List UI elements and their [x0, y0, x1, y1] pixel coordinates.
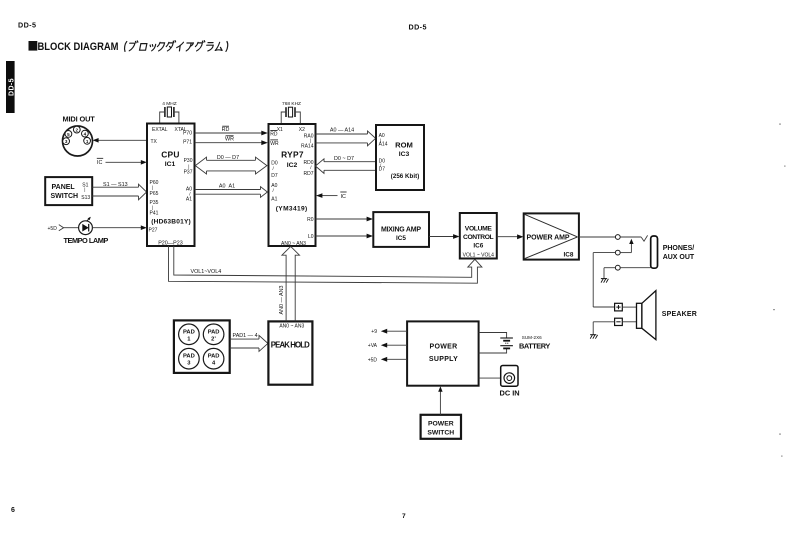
svg-text:P71: P71: [183, 140, 192, 146]
svg-text:SWITCH: SWITCH: [51, 193, 79, 200]
jack contact 1: [615, 235, 647, 242]
pin 4: [82, 130, 89, 137]
wire POWER SWITCH to POWER SUPPLY: [438, 386, 442, 415]
MIDI OUT connector J1: [63, 115, 96, 157]
svg-text:X2: X2: [299, 127, 305, 133]
jack contact 3 (sleeve): [604, 265, 651, 278]
ground (speaker -): [590, 335, 598, 339]
svg-text:IC3: IC3: [399, 151, 410, 158]
svg-text:P41: P41: [150, 211, 159, 217]
scan specks (decorative): [773, 124, 786, 457]
svg-text:RYP7: RYP7: [281, 149, 304, 159]
svg-text:A0 A1: A0 A1: [219, 183, 235, 189]
svg-text:EXTAL: EXTAL: [152, 127, 168, 133]
wire POWER AMP to jack tip: [579, 236, 616, 238]
pad PAD2: [203, 324, 224, 345]
wire TX to MIDI pin1: [93, 138, 147, 143]
svg-text:TEMPO LAMP: TEMPO LAMP: [64, 236, 109, 245]
svg-text:2: 2: [76, 128, 79, 133]
block PEAK HOLD: [268, 321, 312, 384]
svg-text:AN0 — AN3: AN0 — AN3: [279, 285, 285, 314]
svg-text:A1: A1: [271, 197, 277, 203]
net +9: [371, 329, 407, 335]
terminal -: [593, 318, 636, 335]
LED tempo lamp D1: [64, 217, 93, 235]
svg-text:|: |: [152, 185, 153, 190]
pin 2: [73, 126, 80, 133]
svg-text:CONTROL: CONTROL: [463, 234, 494, 241]
bus PAD1-4 to PEAK HOLD: [230, 333, 268, 352]
battery BT1 SUM-2X6: [479, 333, 551, 354]
wire RD CPU to RYP7: [195, 126, 268, 135]
svg-text:+5D: +5D: [48, 226, 58, 232]
svg-text:D0 ~ D7: D0 ~ D7: [334, 156, 354, 162]
svg-text:+9: +9: [371, 329, 377, 335]
svg-text:5: 5: [67, 132, 70, 137]
block PANEL SWITCH: [45, 177, 92, 205]
svg-text:AUX OUT: AUX OUT: [663, 254, 695, 261]
svg-text:R0: R0: [307, 217, 314, 223]
svg-text:P27: P27: [149, 227, 158, 233]
terminal +: [615, 303, 637, 311]
bus S1-S13 PANEL SWITCH to CPU: [92, 182, 146, 200]
svg-text:BATTERY: BATTERY: [519, 342, 551, 351]
pad unit (PAD1-PAD4): [174, 320, 230, 373]
svg-text:RA14: RA14: [301, 144, 314, 150]
svg-text:AN0 ~ AN3: AN0 ~ AN3: [281, 241, 306, 247]
crystal X2 768KHZ: [281, 101, 301, 124]
svg-text:POWER: POWER: [428, 420, 454, 427]
node IC (CPU reset stub): [97, 158, 147, 166]
svg-text:A0 — A14: A0 — A14: [330, 128, 354, 134]
svg-text:A1: A1: [186, 197, 192, 203]
svg-text:RD: RD: [222, 127, 230, 133]
svg-text:SWITCH: SWITCH: [427, 429, 454, 436]
speaker SP1: [637, 291, 698, 340]
svg-text:P65: P65: [150, 191, 159, 197]
wire WR CPU to RYP7: [195, 136, 268, 145]
wire MIXING AMP to VOLUME CONTROL: [429, 234, 460, 239]
svg-text:VOLUME: VOLUME: [465, 226, 493, 233]
svg-text:VOL1~VOL4: VOL1~VOL4: [191, 269, 222, 275]
svg-text:RD: RD: [270, 131, 278, 137]
svg-text:|: |: [84, 187, 85, 192]
svg-text:D7: D7: [271, 173, 278, 179]
svg-text:PEAK HOLD: PEAK HOLD: [271, 340, 310, 349]
ROM IC3: [376, 125, 424, 190]
svg-text:PAD: PAD: [208, 329, 220, 335]
pin 5: [65, 131, 72, 138]
svg-text:MIXING AMP: MIXING AMP: [381, 226, 421, 233]
svg-text:P60: P60: [150, 180, 159, 186]
svg-text:RA0: RA0: [304, 133, 314, 139]
wire jack2 to speaker +: [593, 253, 615, 307]
svg-text:PAD: PAD: [183, 329, 195, 335]
block VOLUME CONTROL IC6: [460, 213, 497, 259]
block MIXING AMP IC5: [373, 212, 429, 247]
wire LED to CPU P27: [64, 225, 147, 245]
svg-text:|: |: [310, 138, 311, 143]
net +VA: [368, 343, 407, 349]
svg-text:DD-5: DD-5: [8, 78, 15, 96]
svg-text:PAD: PAD: [208, 354, 220, 360]
svg-text:IC5: IC5: [396, 235, 406, 242]
wire L0 RYP7 to MIXING AMP: [316, 234, 374, 239]
pin 1: [84, 137, 91, 144]
net +5D: [368, 357, 407, 363]
bus D0-D7 ROM to RYP7: [315, 156, 375, 174]
node +5D: [48, 225, 64, 232]
pad PAD1: [179, 324, 200, 345]
bus A0-A14 RYP7 to ROM: [316, 128, 376, 146]
svg-text:TX: TX: [151, 139, 158, 145]
ground (jack sleeve): [601, 279, 609, 283]
power amp U-IC8: [524, 213, 579, 259]
svg-text:RD0: RD0: [303, 160, 313, 166]
svg-text:BLOCK DIAGRAM: BLOCK DIAGRAM: [38, 41, 119, 53]
svg-text:IC6: IC6: [473, 243, 483, 250]
RYP7 IC2 YM3419: [269, 124, 316, 247]
block POWER SUPPLY: [407, 321, 479, 385]
svg-text:SPEAKER: SPEAKER: [662, 311, 697, 318]
phones jack body: [651, 236, 695, 268]
svg-text:4 MHZ: 4 MHZ: [162, 101, 176, 107]
katakana (burokku daiaguramu): [124, 41, 228, 52]
svg-text:|: |: [188, 164, 189, 169]
svg-text:(HD63B01Y): (HD63B01Y): [151, 218, 191, 225]
node IC (RYP7 stub): [316, 192, 347, 200]
svg-text:2’: 2’: [211, 336, 216, 342]
svg-text:SUM-2X6: SUM-2X6: [522, 335, 542, 340]
pad PAD4: [203, 348, 224, 369]
wire VOLUME CONTROL to POWER AMP: [497, 234, 524, 239]
svg-text:+VA: +VA: [368, 343, 378, 349]
dc jack J2: [479, 366, 520, 398]
svg-text:PAD1 — 4: PAD1 — 4: [233, 333, 258, 339]
svg-text:|: |: [152, 205, 153, 210]
svg-text:A14: A14: [379, 142, 388, 148]
svg-text:POWER AMP: POWER AMP: [527, 235, 570, 242]
bus D0-D7 CPU/RYP7 bidirectional: [195, 155, 267, 174]
svg-text:1: 1: [86, 139, 89, 144]
svg-text:SUPPLY: SUPPLY: [429, 356, 458, 363]
side tab DD-5: [6, 61, 15, 113]
svg-text:+5D: +5D: [368, 357, 378, 363]
bus A0 A1 CPU to RYP7: [195, 183, 268, 197]
svg-text:P37: P37: [184, 170, 193, 176]
wire R0 RYP7 to MIXING AMP: [316, 217, 374, 222]
svg-text:IC2: IC2: [287, 162, 298, 169]
svg-text:(256 Kbit): (256 Kbit): [391, 173, 420, 180]
svg-text:PAD: PAD: [183, 354, 195, 360]
bus VOL1-VOL4 CPU to VOLUME CONTROL: [169, 246, 482, 283]
svg-text:768 KHZ: 768 KHZ: [282, 101, 301, 107]
bus AN0-AN3 PEAK HOLD to RYP7: [279, 246, 300, 321]
pad PAD3: [179, 348, 200, 369]
svg-text:IC1: IC1: [165, 161, 176, 168]
svg-text:PHONES/: PHONES/: [663, 245, 695, 252]
svg-text:D7: D7: [379, 167, 386, 173]
svg-text:L0: L0: [308, 234, 314, 240]
PAGEHEAD: [11, 21, 427, 521]
svg-text:RD7: RD7: [303, 171, 313, 177]
jack contact 2 with switch arrow: [615, 239, 633, 255]
svg-text:CPU: CPU: [161, 149, 180, 159]
svg-text:P20—P23: P20—P23: [158, 241, 183, 247]
svg-text:WR: WR: [225, 137, 234, 143]
svg-text:3: 3: [65, 139, 68, 144]
svg-text:VOL1 ~ VOL4: VOL1 ~ VOL4: [463, 253, 494, 259]
svg-text:X1: X1: [277, 127, 283, 133]
svg-text:DD-5: DD-5: [18, 21, 36, 30]
svg-text:WR: WR: [270, 141, 279, 147]
svg-text:POWER: POWER: [430, 344, 458, 351]
svg-text:PANEL: PANEL: [52, 184, 76, 191]
svg-text:S13: S13: [81, 195, 90, 201]
crystal X1 4MHZ: [160, 101, 179, 124]
svg-text:P70: P70: [183, 131, 192, 137]
svg-text:DD-5: DD-5: [409, 23, 427, 32]
svg-text:IC8: IC8: [564, 252, 574, 259]
svg-text:4: 4: [84, 132, 87, 137]
svg-text:MIDI OUT: MIDI OUT: [63, 115, 96, 124]
svg-text:IC: IC: [341, 194, 346, 200]
svg-text:ROM: ROM: [395, 140, 413, 149]
svg-text:DC IN: DC IN: [500, 388, 520, 397]
svg-text:IC: IC: [97, 160, 102, 166]
svg-text:AN0 ~ AN3: AN0 ~ AN3: [279, 324, 304, 330]
svg-text:6: 6: [11, 507, 15, 514]
CPU IC1 HD63B01Y: [147, 124, 195, 247]
svg-text:7: 7: [402, 513, 406, 520]
svg-text:P35: P35: [150, 200, 159, 206]
pin 3: [63, 138, 70, 145]
svg-text:(YM3419): (YM3419): [276, 206, 308, 213]
block POWER SWITCH: [421, 415, 461, 439]
